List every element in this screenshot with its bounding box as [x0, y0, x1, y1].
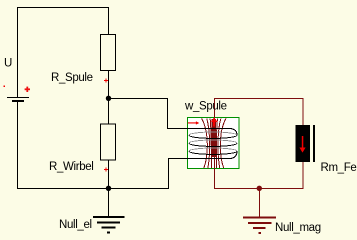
- wire R_Spule top lead: [108, 7, 110, 34]
- wire top horizontal: [17, 7, 109, 9]
- svg-text:U: U: [4, 57, 12, 69]
- svg-text:Null_mag: Null_mag: [275, 222, 321, 234]
- maroon wire coil top to Rm_Fe: [214, 98, 304, 100]
- ground Null_mag bars: [243, 218, 276, 233]
- maroon wire Rm_Fe bottom lead: [302, 162, 304, 189]
- red flux arrow at core top: [211, 117, 218, 126]
- resistor R_Wirbel: [101, 124, 116, 160]
- wire left vertical upper: [17, 7, 19, 98]
- magnetic field lines of coil: [202, 118, 226, 168]
- reluctance Rm_Fe body: [296, 125, 311, 162]
- winding turn 1: [189, 132, 237, 138]
- red current arrow at coil entry: [188, 121, 200, 124]
- wire junction to coil bottom: [109, 159, 187, 189]
- svg-text:R_Spule: R_Spule: [51, 72, 93, 84]
- winding turn 2: [189, 140, 237, 146]
- node magnetic junction: [257, 186, 262, 191]
- red pin cross R_Spule: [104, 79, 108, 83]
- flux line wire core vertical (maroon): [214, 98, 216, 188]
- wire left vertical lower: [17, 102, 19, 189]
- node junction lower: [106, 186, 111, 191]
- svg-text:w_Spule: w_Spule: [184, 100, 227, 112]
- wire junction to coil top: [109, 99, 187, 129]
- winding turn 3: [189, 148, 237, 154]
- node junction upper: [106, 96, 111, 101]
- voltage source U battery negative plate: [12, 100, 24, 102]
- coil core bar: [212, 119, 216, 157]
- wire R_Spule bottom lead: [108, 71, 110, 99]
- winding exit wire: [187, 151, 237, 158]
- red pin dot of source U: [4, 86, 5, 87]
- maroon wire bottom horizontal: [214, 188, 304, 190]
- winding entry wire: [187, 129, 237, 136]
- ground Null_el stem: [108, 188, 110, 216]
- red flux arrow in Rm_Fe: [299, 136, 305, 153]
- voltage source U battery positive plate: [7, 97, 29, 99]
- wire R_Wirbel bottom lead: [108, 160, 110, 189]
- svg-text:R_Wirbel: R_Wirbel: [49, 161, 94, 173]
- wire R_Wirbel top lead: [108, 98, 110, 124]
- svg-text:Null_el: Null_el: [59, 219, 92, 231]
- red pin cross R_Wirbel: [104, 167, 108, 171]
- Rm_Fe right bar: [313, 125, 315, 162]
- coil w_Spule bounding green box: [188, 118, 240, 169]
- ground Null_mag stem: [259, 188, 261, 217]
- resistor R_Spule: [101, 35, 116, 71]
- wire bottom horizontal left: [17, 188, 109, 190]
- ground Null_el bars: [93, 217, 125, 232]
- maroon wire Rm_Fe top lead: [302, 98, 304, 125]
- plus sign of source U: [25, 87, 30, 92]
- svg-text:Rm_Fe: Rm_Fe: [321, 162, 357, 174]
